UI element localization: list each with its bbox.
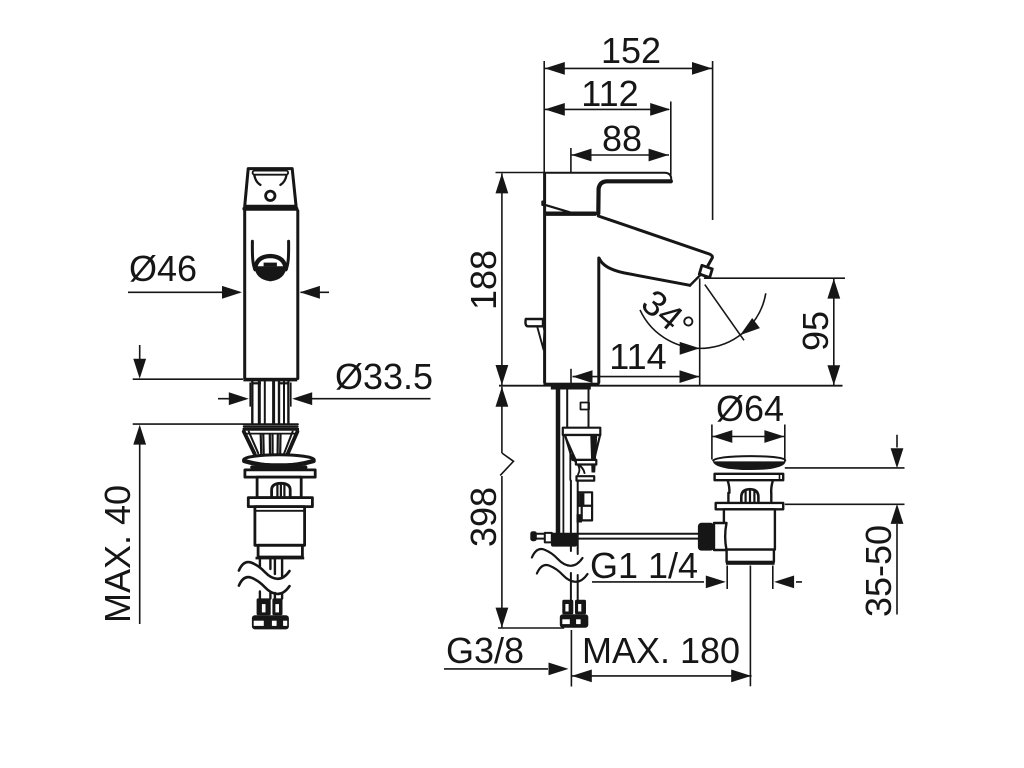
dim g38 leader <box>444 668 548 670</box>
body right edge side <box>597 258 600 383</box>
cone washer side body <box>565 435 600 460</box>
dim d33.5 line <box>218 398 431 400</box>
svg-text:G1 1/4: G1 1/4 <box>590 545 698 586</box>
popup lower dark bar <box>256 557 305 560</box>
shank thread lines <box>251 382 253 424</box>
arrows 114 <box>573 370 593 383</box>
stream line 34deg <box>705 285 744 341</box>
svg-text:MAX. 40: MAX. 40 <box>97 485 138 623</box>
arrows d46 <box>222 286 242 299</box>
drain rod boss dark <box>698 523 714 551</box>
ext 112 right <box>670 102 672 176</box>
spout front U left <box>252 241 255 269</box>
svg-text:398: 398 <box>463 487 504 547</box>
popup flange front <box>248 498 312 507</box>
drain bottom section <box>727 550 774 562</box>
arrows 95 <box>827 279 840 299</box>
svg-text:35-50: 35-50 <box>858 525 899 617</box>
hose fitting side base <box>560 614 589 628</box>
dim d64 line <box>712 436 785 438</box>
ext 114 right vertical <box>699 278 701 385</box>
shank top caps <box>252 382 261 384</box>
pull rod knob side <box>525 319 543 326</box>
svg-text:114: 114 <box>609 336 666 377</box>
ext g114 <box>727 566 773 590</box>
hose fitting front base <box>252 615 289 629</box>
drain cap dome <box>713 456 785 460</box>
body top seam <box>244 207 296 211</box>
ext 35-50 top <box>785 467 905 469</box>
arrows g114 <box>706 576 726 589</box>
drain cap band <box>713 461 785 470</box>
svg-text:88: 88 <box>602 118 642 159</box>
svg-text:Ø33.5: Ø33.5 <box>335 356 433 397</box>
break wave side 1 <box>532 549 583 566</box>
mounting nut rect <box>245 470 315 477</box>
housing block side <box>579 492 593 506</box>
drain centerline <box>749 566 751 687</box>
arrows 112 <box>545 103 565 116</box>
cone washer top plate <box>243 423 298 425</box>
supply tubes front lower <box>259 592 261 599</box>
svg-text:112: 112 <box>581 73 638 114</box>
arrowheads <box>133 62 903 682</box>
popup rod vertical <box>556 390 561 534</box>
aerator bottom face <box>690 274 701 285</box>
svg-text:Ø64: Ø64 <box>716 388 784 429</box>
cone washer side shade <box>590 436 597 473</box>
drain lower flange <box>716 503 784 509</box>
body right edge <box>296 211 299 379</box>
faucet base bar <box>243 378 297 382</box>
cone washer side top <box>563 428 601 435</box>
hose side lines <box>570 481 572 551</box>
ext 88 left <box>570 148 572 173</box>
spout front dark bowl <box>254 266 286 281</box>
arrows max40 <box>133 359 146 379</box>
arrows 35-50 <box>891 448 904 468</box>
lever pivot diagonal <box>546 205 570 212</box>
popup housing dome front <box>272 483 291 496</box>
lever underside thick <box>598 181 671 213</box>
svg-text:188: 188 <box>463 250 504 310</box>
lever top line <box>544 173 671 180</box>
angle arc <box>640 293 766 348</box>
break wave front 2 <box>239 577 290 594</box>
pull rod wedge <box>537 327 544 350</box>
base gasket side <box>551 387 591 390</box>
spout aerator side <box>699 265 712 277</box>
dim 112 line <box>544 108 669 110</box>
dimension texts <box>97 30 899 671</box>
housing lower side <box>582 506 592 521</box>
dim max40 vertical <box>139 345 141 624</box>
popup cylinder front <box>255 507 305 546</box>
ext 95 top <box>704 277 845 279</box>
ext max40 bottom <box>133 423 243 425</box>
cone washer ribs <box>260 435 263 454</box>
body left edge <box>243 211 246 379</box>
ext max180 left <box>570 630 572 687</box>
rod horizontal lines <box>532 533 698 535</box>
washer side <box>576 460 596 465</box>
handle front circle <box>266 191 275 200</box>
popup housing body front <box>257 477 301 498</box>
ext 35-50 bottom <box>785 503 905 505</box>
drain bottom dark bar <box>726 561 775 565</box>
dim g114 line <box>592 581 802 583</box>
arrows 88 <box>572 149 592 162</box>
shank tube side <box>566 390 568 428</box>
hose hook curve <box>572 455 585 473</box>
arrows 152 <box>545 62 565 75</box>
ext 152 left <box>543 61 545 173</box>
cone diag line <box>566 438 580 475</box>
drain neck <box>728 481 730 493</box>
spout front U right <box>286 241 289 269</box>
spout underside <box>599 259 690 286</box>
handle front trapezoid <box>245 169 296 207</box>
break wave front 1 <box>239 562 290 579</box>
clamp bump <box>577 514 583 522</box>
ext 398 bottom <box>498 627 564 629</box>
arrow g38 <box>549 663 569 676</box>
dim 398 line w break <box>500 387 513 628</box>
break wave side 2 <box>537 565 588 582</box>
svg-text:152: 152 <box>601 30 661 71</box>
cone washer body <box>244 432 255 454</box>
svg-text:MAX. 180: MAX. 180 <box>582 630 740 671</box>
dim max180 line <box>571 675 751 677</box>
drain knob ribbed <box>741 489 758 502</box>
hose fitting side blocks <box>562 600 573 615</box>
ext d33.5 <box>250 383 291 407</box>
dim 152 line <box>544 67 712 69</box>
supply tubes front upper <box>259 559 261 567</box>
arrows d64 <box>712 430 732 443</box>
dim d46 line <box>128 291 329 293</box>
ext 114 left <box>570 369 572 384</box>
spout top edge <box>598 216 712 271</box>
handle front left curve <box>254 175 260 185</box>
dim 88 line <box>571 154 669 156</box>
handle front slot <box>253 171 289 175</box>
ext max40 top <box>133 378 243 380</box>
shank detail rect <box>581 403 590 410</box>
handle front right curve <box>280 175 286 185</box>
guide tube lines <box>562 436 564 533</box>
left edge notch <box>542 202 544 206</box>
ext d64 <box>712 425 785 462</box>
spout front aerator rect <box>264 263 277 267</box>
svg-text:Ø46: Ø46 <box>129 248 197 289</box>
arrows 188 <box>496 173 509 193</box>
spout front dome arc <box>255 256 286 269</box>
rod clamp <box>551 533 577 546</box>
drain rod boss outline <box>714 523 727 550</box>
arrows arc 34 <box>680 342 700 355</box>
dim 188 line <box>501 173 503 385</box>
ext 188 top <box>496 172 545 174</box>
rod left knob <box>530 531 537 541</box>
svg-text:95: 95 <box>795 311 836 351</box>
deck line <box>499 385 843 387</box>
nut side <box>577 476 595 480</box>
dim 35-50 vertical <box>896 435 898 615</box>
hose fitting front left <box>257 598 271 615</box>
popup lower section front <box>258 545 302 557</box>
drain body <box>724 509 775 549</box>
drain flange <box>715 474 784 480</box>
svg-text:G3/8: G3/8 <box>446 630 524 671</box>
ext 152 right <box>712 61 714 220</box>
washer ellipse <box>244 455 315 465</box>
arrows d33.5 <box>229 392 249 405</box>
hose fitting front right <box>272 598 282 615</box>
dim 95 line <box>833 279 835 386</box>
arrows 398 <box>496 387 509 407</box>
cartridge seam thick <box>546 211 596 215</box>
body left edge side <box>543 174 546 383</box>
washer lower ring <box>252 467 306 469</box>
base bar side <box>544 383 600 387</box>
arrows max180 <box>572 670 592 683</box>
dim 114 line <box>573 376 700 378</box>
drain neck step <box>727 493 729 503</box>
